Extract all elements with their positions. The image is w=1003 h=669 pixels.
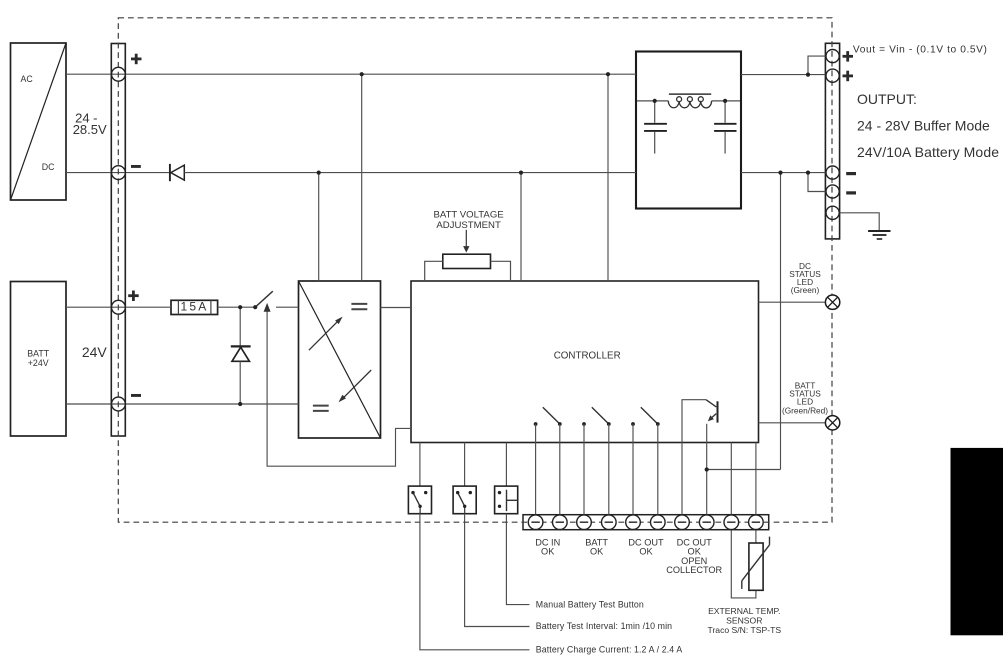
svg-text:Battery Test Interval: 1min /1: Battery Test Interval: 1min /10 min: [536, 621, 672, 631]
svg-text:EXTERNAL TEMP.: EXTERNAL TEMP.: [708, 606, 780, 616]
diode D1: [170, 164, 184, 181]
relay contact K3: [631, 407, 660, 426]
svg-text:Manual Battery Test Button: Manual Battery Test Button: [536, 600, 644, 610]
wire SW3 to manual battery test label: [506, 514, 529, 605]
node + bus / +sense branch: [806, 73, 810, 77]
terminal 10 temp sensor b: [749, 515, 764, 530]
svg-text:COLLECTOR: COLLECTOR: [666, 565, 722, 575]
wire controller to terminal 9: [730, 443, 732, 516]
pushbutton SW3 manual battery test: [495, 486, 518, 514]
svg-text:28.5V: 28.5V: [73, 122, 107, 137]
terminal OUT -: [826, 166, 839, 179]
label AC - polarity: [131, 165, 141, 168]
wire - output right: [741, 172, 825, 174]
svg-text:Battery Charge Current: 1.2 A: Battery Charge Current: 1.2 A / 2.4 A: [536, 645, 683, 655]
wire + bus to controller top: [607, 74, 609, 281]
wire battery + to fuse: [66, 306, 171, 308]
bottom terminal strip (signal): [523, 515, 769, 530]
node battery - / diode tap: [238, 402, 242, 406]
terminal 8 open collector return: [699, 515, 714, 530]
wire DC/DC to controller: [381, 307, 412, 309]
terminal OUT earth: [826, 206, 839, 219]
svg-text:AC: AC: [21, 74, 34, 84]
wire terminal 10 to thermistor: [755, 530, 757, 543]
terminal 6 DC OUT OK b: [651, 515, 666, 530]
node - bus / open collector drop: [778, 171, 782, 175]
label AC + polarity: [131, 54, 142, 64]
wire controller to DIP switch SW2: [464, 443, 466, 487]
transistor Q1 open collector: [682, 400, 718, 515]
terminal 7 open collector: [675, 515, 690, 530]
label BATT status LED: [782, 380, 828, 415]
diode D2 across battery: [231, 307, 251, 404]
wire controller to BATT status LED: [759, 422, 826, 424]
node - bus / -sense branch: [806, 171, 810, 175]
wire + bus AC: [66, 73, 636, 75]
wire controller to switch actuator: [267, 311, 411, 466]
wire fuse to switch: [218, 306, 256, 308]
wire - bus to DC/DC top: [318, 173, 320, 281]
svg-text:24V/10A Battery Mode: 24V/10A Battery Mode: [857, 144, 999, 160]
wire + output right: [741, 74, 825, 76]
wire - bus to controller top: [520, 173, 522, 281]
svg-text:(Green): (Green): [791, 285, 820, 295]
label terminals BATT OK: [585, 537, 608, 556]
node switch S1 pivot: [253, 305, 257, 309]
wire switch to DC/DC: [276, 306, 299, 308]
wire + bus to DC/DC top: [361, 74, 363, 281]
label OUT -sense polarity: [846, 191, 856, 194]
label terminals DC OUT OK: [628, 537, 664, 556]
svg-text:SENSOR: SENSOR: [726, 616, 762, 626]
svg-text:BATT VOLTAGE: BATT VOLTAGE: [433, 210, 503, 221]
output filter: [636, 52, 741, 209]
BATT status LED lamp: [825, 416, 839, 430]
svg-text:24 - 28V Buffer Mode: 24 - 28V Buffer Mode: [857, 117, 990, 133]
wire SW2 to battery test interval label: [465, 514, 530, 627]
switch S1 blade: [255, 291, 273, 307]
battery BATT +24V: [11, 282, 67, 437]
svg-text:OK: OK: [541, 547, 555, 557]
wire branch to -sense terminal: [808, 173, 826, 192]
wire earth terminal to ground: [840, 213, 880, 230]
wire emitter junction to - drop: [707, 469, 781, 471]
DIP switch SW1 battery charge current: [408, 486, 431, 514]
svg-text:Vout = Vin - (0.1V to 0.5V): Vout = Vin - (0.1V to 0.5V): [853, 44, 988, 55]
svg-text:OK: OK: [639, 547, 653, 557]
wire SW1 to battery charge current label: [420, 514, 530, 650]
black redaction rectangle: [951, 448, 1003, 635]
wire emitter to terminal 8: [706, 424, 708, 515]
svg-text:+24V: +24V: [28, 358, 49, 368]
relay contact K1: [534, 407, 562, 426]
label BATT - polarity: [131, 394, 141, 397]
relay contact K2: [582, 407, 611, 426]
terminal 9 temp sensor a: [724, 515, 739, 530]
wire terminal 9 to thermistor: [731, 530, 756, 598]
label external temp sensor: [708, 606, 782, 635]
label BATT + polarity: [128, 291, 139, 302]
terminal 1 DC IN OK a: [528, 515, 543, 530]
svg-text:OK: OK: [590, 547, 604, 557]
capacitor C2: [714, 101, 736, 154]
svg-text:Traco S/N: TSP-TS: Traco S/N: TSP-TS: [708, 625, 782, 635]
terminal 3 BATT OK a: [577, 515, 592, 530]
node L1-C1 junction: [653, 99, 657, 103]
svg-text:15A: 15A: [181, 300, 209, 314]
wire contact K1b to terminal 2: [559, 424, 561, 515]
wire contact K3b to terminal 6: [657, 424, 659, 515]
terminal OUT +sense: [826, 50, 839, 63]
node + bus / DC-DC tap: [360, 72, 364, 76]
wire controller to terminal 10: [755, 443, 757, 516]
svg-text:OUTPUT:: OUTPUT:: [857, 91, 917, 107]
label terminals DC OUT OK open collector: [666, 537, 722, 575]
capacitor C1: [644, 101, 667, 154]
wire - bus AC right of diode: [184, 172, 636, 174]
terminal BATT +: [112, 300, 126, 314]
label terminals DC IN OK: [535, 537, 560, 556]
label DC status LED: [789, 261, 821, 295]
label OUT +sense polarity: [843, 51, 854, 62]
potentiometer batt voltage adjustment: [425, 230, 511, 281]
terminal 4 BATT OK b: [602, 515, 617, 530]
svg-text:CONTROLLER: CONTROLLER: [554, 351, 621, 362]
ground: [868, 231, 890, 239]
svg-text:DC: DC: [42, 162, 55, 172]
wire contact K2b to terminal 4: [608, 424, 610, 515]
label OUT - polarity: [846, 172, 856, 175]
label batt voltage adjustment: [433, 210, 503, 232]
wire controller to pushbutton SW3: [505, 443, 507, 487]
DC/DC converter (bidirectional): [299, 281, 381, 438]
terminal 2 DC IN OK b: [553, 515, 568, 530]
terminal AC -: [112, 166, 126, 180]
wire branch to +sense terminal: [808, 56, 826, 75]
node L1-C2 junction: [723, 99, 727, 103]
node - bus / DC-DC tap: [317, 171, 321, 175]
fuse F1 15A: [171, 300, 218, 315]
wire controller to DC status LED: [759, 301, 826, 303]
inductor L1: [637, 94, 740, 108]
DC status LED lamp: [825, 295, 839, 309]
wire - bus drop to open collector: [780, 173, 782, 470]
node emitter junction: [705, 467, 709, 471]
thermistor RT1 external temp sensor: [742, 537, 770, 591]
node - bus / controller tap: [519, 171, 523, 175]
terminal AC +: [112, 67, 126, 81]
terminal 5 DC OUT OK a: [626, 515, 641, 530]
svg-text:24V: 24V: [82, 344, 108, 360]
left terminal strip (AC/BATT input): [111, 44, 125, 437]
AC/DC converter: [11, 43, 67, 200]
wire contact K1a to terminal 1: [535, 424, 537, 515]
node + bus / controller tap: [606, 72, 610, 76]
svg-text:ADJUSTMENT: ADJUSTMENT: [436, 220, 501, 231]
wire battery - bus: [66, 403, 299, 405]
wire contact K2a to terminal 3: [583, 424, 585, 515]
DIP switch SW2 battery test interval: [453, 486, 476, 514]
terminal BATT -: [112, 397, 126, 411]
node battery + / diode tap: [238, 305, 242, 309]
controller: [411, 281, 759, 443]
label 24 - 28.5V: [73, 111, 107, 137]
wire controller to DIP switch SW1: [419, 443, 421, 487]
label OUT + polarity: [843, 71, 854, 82]
wire contact K3a to terminal 5: [632, 424, 634, 515]
terminal OUT +: [826, 69, 839, 82]
svg-text:(Green/Red): (Green/Red): [782, 405, 828, 415]
right terminal strip (output): [825, 43, 839, 239]
terminal OUT -sense: [826, 185, 839, 198]
enclosure dashed border: [118, 18, 832, 522]
switch actuator arrowhead: [264, 303, 271, 312]
wire - bus AC left of diode: [66, 172, 169, 174]
